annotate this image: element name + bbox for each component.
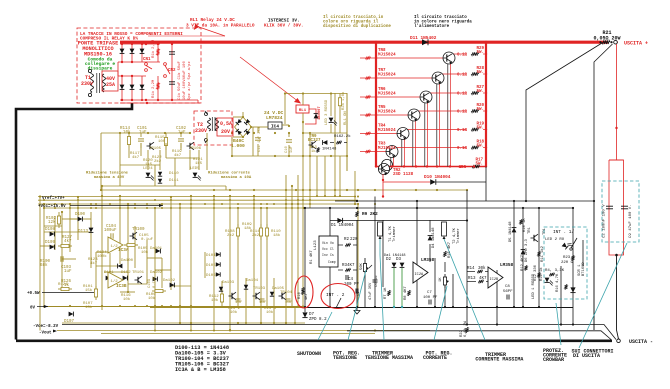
wire olive vertical x298 xyxy=(297,175,299,307)
svg-text:20V: 20V xyxy=(221,129,230,135)
node olive junction xyxy=(297,306,299,308)
svg-text:R13: R13 xyxy=(468,277,476,281)
svg-text:50K: 50K xyxy=(360,262,364,270)
svg-text:Trimmer: Trimmer xyxy=(392,226,397,242)
node olive junction xyxy=(245,322,247,324)
svg-text:IC3A: IC3A xyxy=(118,248,129,253)
node olive junction xyxy=(69,203,71,205)
svg-text:1uF: 1uF xyxy=(139,131,147,135)
svg-text:47uF 35V: 47uF 35V xyxy=(369,282,373,300)
node olive junction xyxy=(190,322,192,324)
wire olive vertical x96 xyxy=(95,252,97,292)
svg-text:10k: 10k xyxy=(230,310,238,315)
node olive junction xyxy=(61,203,63,205)
svg-text:RL1: RL1 xyxy=(299,109,307,113)
wire olive upper cluster stubs xyxy=(140,143,142,156)
wire olive bridge connections xyxy=(233,116,243,118)
wire cyan callout shutdown xyxy=(318,312,332,340)
node olive junction xyxy=(119,132,121,134)
wire olive vertical x214 xyxy=(213,196,215,307)
node olive junction xyxy=(285,322,287,324)
svg-text:5W.: 5W. xyxy=(475,163,483,167)
wire green zener D3 xyxy=(401,268,403,307)
svg-text:TENSIONE MASSIMA: TENSIONE MASSIMA xyxy=(365,355,413,361)
node olive junction xyxy=(288,155,290,157)
wire black vertical x383 xyxy=(382,220,384,287)
svg-text:5W.: 5W. xyxy=(476,145,484,149)
wire cyan callout pot tensione xyxy=(348,270,366,340)
wire green zener D2 xyxy=(393,268,395,307)
wire olive vertical x135 xyxy=(134,226,136,268)
node black junction xyxy=(593,200,595,202)
node black junction xyxy=(466,323,468,325)
box red 40V 25A xyxy=(102,71,118,91)
node red bus D11 junctions xyxy=(418,41,421,44)
node olive junction xyxy=(170,196,172,198)
diode D110 xyxy=(158,172,162,176)
node olive junction xyxy=(297,207,299,209)
node black junction xyxy=(444,306,446,308)
node black junction xyxy=(356,306,358,308)
node olive junction xyxy=(127,203,129,205)
wire olive vertical x335 xyxy=(334,93,336,196)
ground symbol C5 xyxy=(354,308,360,314)
node olive junction xyxy=(302,199,304,201)
node olive junction xyxy=(54,207,56,209)
wire olive bus 0V y306 xyxy=(44,306,303,308)
wire olive bus y200 xyxy=(38,199,358,201)
svg-text:MJ15024: MJ15024 xyxy=(378,54,396,58)
node olive junction xyxy=(309,203,311,205)
node olive junction xyxy=(260,207,262,209)
potentiometer 1K current xyxy=(443,274,446,288)
node olive junction xyxy=(302,121,304,123)
wire olive bus y196 xyxy=(38,196,356,198)
wire black y330 to output xyxy=(347,331,611,340)
node olive junction xyxy=(260,322,262,324)
svg-text:D2: D2 xyxy=(386,258,392,262)
node olive junction xyxy=(231,132,233,134)
svg-text:MJ15024: MJ15024 xyxy=(378,129,396,133)
svg-text:4k7: 4k7 xyxy=(90,261,98,266)
svg-text:4k7: 4k7 xyxy=(132,155,140,160)
svg-text:10k: 10k xyxy=(148,296,156,301)
svg-text:Trimmer: Trimmer xyxy=(456,228,461,244)
node olive junction xyxy=(250,126,252,128)
node olive junction xyxy=(260,306,262,308)
wire collector drop TR7 xyxy=(436,84,438,167)
resistor R10 1K xyxy=(520,219,523,224)
svg-text:12k: 12k xyxy=(48,220,56,225)
svg-text:1.000: 1.000 xyxy=(231,143,245,149)
wire black vertical x330 xyxy=(329,208,331,236)
wire red emitter drop TR7 xyxy=(439,84,441,167)
diode D6 ZPD 3.3 xyxy=(521,250,526,255)
wire olive upper cluster frame xyxy=(101,132,190,134)
resistor R11b 1k xyxy=(538,272,541,277)
resistor R24 1,8k xyxy=(338,94,341,111)
node olive junction xyxy=(288,125,290,127)
led LED3 xyxy=(330,110,332,116)
op-amp IC3B xyxy=(108,272,123,288)
svg-text:D113: D113 xyxy=(78,230,89,234)
wire olive relay box top xyxy=(285,93,347,95)
node olive junction xyxy=(357,195,359,197)
transistor TR102 xyxy=(229,292,237,300)
node olive junction xyxy=(309,199,311,201)
node olive junction xyxy=(302,189,304,191)
wire olive y133 relay xyxy=(303,132,347,134)
svg-text:D100: D100 xyxy=(75,213,86,217)
wire red emitter drop TR8 xyxy=(450,64,452,167)
node output negative terminal xyxy=(617,339,621,343)
transistor TR3 MJ15024 xyxy=(386,146,398,158)
node olive junction xyxy=(374,329,376,331)
wire black sense diagonal 1 xyxy=(526,43,602,201)
wire red emitter drop TR4 xyxy=(404,139,406,167)
wire olive vertical x274 xyxy=(273,278,275,307)
diode bridge bottom 3 xyxy=(141,76,143,100)
wire collector drop TR3 xyxy=(390,157,392,167)
red circle annotation INT 2 xyxy=(321,284,355,309)
svg-text:USCITA +: USCITA + xyxy=(624,41,648,47)
node olive junction xyxy=(291,207,293,209)
wire olive vertical x180 xyxy=(179,204,181,323)
wire cyan callout protez xyxy=(556,303,561,345)
node olive junction xyxy=(324,195,326,197)
node olive junction xyxy=(354,195,356,197)
wire olive link y286 xyxy=(171,285,191,287)
node olive junction xyxy=(213,203,215,205)
node olive junction xyxy=(309,155,311,157)
wire collector drop TR8 xyxy=(447,64,449,167)
svg-text:10k: 10k xyxy=(266,310,274,315)
wire olive link y259 xyxy=(62,258,76,260)
diode D5 1N4148 xyxy=(512,228,517,233)
node black junction xyxy=(538,207,540,209)
wire olive relay verticals xyxy=(284,94,286,125)
wire olive link y246 xyxy=(40,245,55,247)
wire olive vertical x44 xyxy=(43,204,45,307)
wire olive vertical x102 xyxy=(101,186,103,310)
node black junction xyxy=(513,306,515,308)
transformer T2 secondary xyxy=(216,118,219,131)
node olive junction xyxy=(190,207,192,209)
wire black vertical x467 xyxy=(466,190,468,325)
wire red base row TR8 xyxy=(360,57,443,59)
node olive junction xyxy=(134,207,136,209)
svg-text:RL1 Relay 24 V.DC: RL1 Relay 24 V.DC xyxy=(190,18,235,23)
resistor R18 0.1ohm 5W xyxy=(471,146,479,149)
resistor R12 4K7 xyxy=(525,265,528,270)
node olive junction xyxy=(213,306,215,308)
node black junction xyxy=(434,306,436,308)
node olive junction xyxy=(54,203,56,205)
node olive junction xyxy=(285,199,287,201)
node olive junction xyxy=(90,203,92,205)
node olive junction xyxy=(357,189,359,191)
svg-text:0.1uF: 0.1uF xyxy=(153,276,157,288)
node olive junction xyxy=(237,207,239,209)
node olive junction xyxy=(316,195,318,197)
capacitor C1b upper xyxy=(171,44,173,100)
node olive junction xyxy=(190,199,192,201)
svg-text:Riduzione corrente: Riduzione corrente xyxy=(208,171,251,176)
wire collector drop TR4 xyxy=(401,139,403,167)
svg-text:C7: C7 xyxy=(427,291,432,295)
svg-text:D4 1N4148: D4 1N4148 xyxy=(432,227,436,248)
wire olive vertical x230 xyxy=(229,196,231,330)
node black junction xyxy=(356,200,358,202)
node black junction xyxy=(329,306,331,308)
wire olive link y252 xyxy=(96,251,110,253)
wire olive bus y190 xyxy=(101,189,467,191)
svg-text:MJ15024: MJ15024 xyxy=(378,147,396,151)
wire olive upper cluster horizontals xyxy=(120,164,160,166)
svg-text:230V: 230V xyxy=(195,128,207,134)
node olive junction xyxy=(295,189,297,191)
node black junction xyxy=(496,323,498,325)
svg-text:Vcc: Vcc xyxy=(322,247,328,251)
wire red output down xyxy=(616,44,618,160)
wire olive vertical x246 xyxy=(245,278,247,307)
wire black vertical x453 xyxy=(452,274,454,307)
svg-text:0.1uF: 0.1uF xyxy=(141,238,154,242)
wire red bridge bottom rail xyxy=(120,99,198,101)
wire olive link y232 xyxy=(44,231,91,233)
diode D1 1N4004 xyxy=(337,218,342,223)
node red junctions box xyxy=(121,61,123,63)
wire red emitter drop TR5 xyxy=(415,121,417,167)
node olive junction xyxy=(229,195,231,197)
transformer T1 secondary xyxy=(103,74,106,92)
wire black -Vce rail xyxy=(62,325,616,340)
svg-text:Da102: Da102 xyxy=(150,271,163,275)
node olive junction xyxy=(354,203,356,205)
node olive junction xyxy=(273,203,275,205)
svg-text:R9 2K2: R9 2K2 xyxy=(362,212,378,217)
node red bottom bus junctions xyxy=(375,165,377,167)
node olive junction xyxy=(309,132,311,134)
svg-text:Da100: Da100 xyxy=(121,259,134,263)
regulator IC1 L123 xyxy=(319,236,338,267)
node olive junction xyxy=(213,189,215,191)
wire thick red positive bus xyxy=(120,41,608,44)
node olive junction xyxy=(164,132,166,134)
resistor R11 1k2 xyxy=(538,251,541,256)
wire red base row TR4 xyxy=(360,133,397,135)
svg-text:LED5: LED5 xyxy=(190,167,200,171)
svg-text:R34K7: R34K7 xyxy=(342,264,355,268)
svg-text:C6 1u: C6 1u xyxy=(375,276,379,287)
svg-text:D7: D7 xyxy=(309,313,315,317)
svg-text:10Ω: 10Ω xyxy=(458,166,466,170)
svg-text:CORRENTE MASSIMA: CORRENTE MASSIMA xyxy=(475,357,523,363)
transistor TR1 BC547 xyxy=(531,234,539,242)
node red bus junctions xyxy=(375,41,378,44)
wire olive bus y333 xyxy=(101,333,375,335)
node black junction xyxy=(304,306,306,308)
svg-text:TR106: TR106 xyxy=(189,147,202,151)
wire olive vertical x147 xyxy=(146,240,148,284)
svg-text:Da102: Da102 xyxy=(163,279,176,283)
potentiometer 50K xyxy=(363,258,366,277)
resistor R19 0.1ohm 5W xyxy=(471,128,479,131)
svg-text:CORRENTE: CORRENTE xyxy=(423,355,447,361)
node olive junction xyxy=(161,203,163,205)
svg-text:TR100: TR100 xyxy=(132,228,145,232)
svg-text:10k: 10k xyxy=(211,298,219,303)
svg-text:D110: D110 xyxy=(169,172,179,176)
wire red annotation diagonal to relay xyxy=(240,57,299,102)
wire black vertical x305 xyxy=(304,208,306,312)
wire olive vertical x340 xyxy=(339,156,341,196)
node olive junction xyxy=(302,155,304,157)
wire olive link y266 xyxy=(96,265,120,267)
node olive junction xyxy=(43,199,45,201)
svg-text:LED 2 RO: LED 2 RO xyxy=(545,238,565,242)
svg-text:0.1Ω: 0.1Ω xyxy=(457,74,468,78)
node olive junction xyxy=(128,132,130,134)
node olive junction xyxy=(253,199,255,201)
svg-text:4k7: 4k7 xyxy=(174,153,182,158)
svg-text:Riduzione tensione: Riduzione tensione xyxy=(86,171,129,176)
svg-text:massima a 10A: massima a 10A xyxy=(221,175,252,180)
capacitor C4 100 PF xyxy=(346,275,348,280)
svg-text:R11 1k: R11 1k xyxy=(539,267,544,281)
node black junction xyxy=(374,306,376,308)
wire black vertical x445 xyxy=(444,262,446,272)
transistor TR106 xyxy=(187,142,195,150)
svg-text:C11 1uF 25V: C11 1uF 25V xyxy=(258,126,262,152)
svg-text:1k: 1k xyxy=(311,149,316,154)
resistor R21 xyxy=(602,40,610,44)
svg-text:MJ15024: MJ15024 xyxy=(378,93,396,97)
diode D11 1N5402 xyxy=(422,39,428,45)
wire olive vertical x62 xyxy=(61,212,63,288)
svg-text:TR101: TR101 xyxy=(132,271,145,275)
svg-text:Da104: Da104 xyxy=(246,279,259,283)
node olive junction xyxy=(415,189,417,191)
diode bridge top 2 xyxy=(131,44,133,62)
svg-text:TR6: TR6 xyxy=(378,88,386,92)
node olive junction xyxy=(95,203,97,205)
node olive junction xyxy=(180,132,182,134)
svg-text:IC2A: IC2A xyxy=(415,273,424,277)
resistor R1b 2,2M upper xyxy=(157,44,159,62)
resistor base TR8 xyxy=(365,57,370,60)
node olive junction xyxy=(221,203,223,205)
svg-text:220: 220 xyxy=(350,238,358,242)
resistor R28 0.1ohm 5W xyxy=(471,72,479,75)
node olive junction xyxy=(213,199,215,201)
wire black bus y307 xyxy=(305,307,573,309)
resistor R103 10k xyxy=(124,243,138,246)
node black junction xyxy=(329,207,331,209)
node black junction xyxy=(466,219,468,221)
svg-text:R23,: R23, xyxy=(563,256,573,260)
switch INT1 xyxy=(571,238,577,248)
node olive junction xyxy=(69,207,71,209)
svg-text:10k: 10k xyxy=(141,250,149,255)
wire black vertical x514 xyxy=(513,201,515,307)
wire collector drop TR5 xyxy=(412,121,414,167)
node olive junction xyxy=(213,329,215,331)
node olive junction xyxy=(339,195,341,197)
svg-text:l'alimentatore: l'alimentatore xyxy=(414,24,450,29)
node olive junction xyxy=(69,305,71,307)
svg-text:D5 1N4148: D5 1N4148 xyxy=(509,221,513,242)
wire black vertical x357 xyxy=(356,220,358,308)
svg-text:2k2: 2k2 xyxy=(252,233,260,238)
wire thick black negative rail left xyxy=(16,103,132,340)
led LED1 xyxy=(545,278,553,286)
resistor R13b 1k xyxy=(317,147,320,152)
node olive junction xyxy=(95,207,97,209)
wire olive vertical x355 xyxy=(354,171,356,204)
wire black sense diagonal 2 xyxy=(594,44,613,330)
wire black vertical x445 xyxy=(444,286,446,307)
capacitor C2 100nF xyxy=(606,206,613,209)
svg-text:Il circuito tracciato,in: Il circuito tracciato,in xyxy=(323,15,384,20)
svg-text:5W.: 5W. xyxy=(476,51,484,55)
svg-text:INT . 2: INT . 2 xyxy=(326,293,345,298)
node olive junction xyxy=(190,203,192,205)
wire olive vertical x254 xyxy=(253,196,255,307)
wire red emitter row TR5 xyxy=(418,110,466,112)
node olive junction xyxy=(237,322,239,324)
svg-text:220 Ω: 220 Ω xyxy=(561,261,574,265)
node olive junction xyxy=(146,305,148,307)
svg-text:2SD 1128: 2SD 1128 xyxy=(393,173,414,177)
node olive junction xyxy=(253,189,255,191)
svg-text:TR5: TR5 xyxy=(378,106,386,110)
node olive junction xyxy=(291,306,293,308)
node olive junction xyxy=(297,203,299,205)
node olive junction xyxy=(61,211,63,213)
svg-text:LM358: LM358 xyxy=(500,263,514,268)
svg-text:TR7: TR7 xyxy=(378,69,386,73)
wire black vertical x330 xyxy=(329,267,331,307)
wire black output negative drop xyxy=(617,255,619,339)
svg-text:Cs: Cs xyxy=(330,253,334,257)
svg-text:D105: D105 xyxy=(206,264,216,268)
wire olive vertical x155 xyxy=(154,208,156,330)
label annotation underline xyxy=(148,35,225,37)
node black junction xyxy=(538,306,540,308)
resistor R22 6,8k 2W xyxy=(465,327,468,333)
red circle annotation R10 pot xyxy=(295,276,313,308)
svg-text:IC2B: IC2B xyxy=(490,278,499,282)
svg-text:100k: 100k xyxy=(97,254,107,259)
node olive junction xyxy=(266,306,268,308)
wire black vertical x435 xyxy=(434,258,436,307)
wire black vertical x561 xyxy=(560,266,562,325)
node olive junction xyxy=(229,199,231,201)
relay RL1 coil xyxy=(296,105,309,113)
svg-text:D108: D108 xyxy=(45,228,56,232)
trimmer T2 4,7K xyxy=(442,222,447,236)
resistor R9 2K2 xyxy=(355,211,358,217)
svg-text:10uF 100V40uF 100: 10uF 100V40uF 100 xyxy=(183,61,187,100)
wire olive relay bottom xyxy=(302,113,304,124)
svg-text:USCITA -: USCITA - xyxy=(629,339,653,345)
node olive junction xyxy=(189,132,191,134)
wire collector drop TR6 xyxy=(424,103,426,167)
wire red bridge top rail xyxy=(120,43,160,45)
svg-text:SHUTDOWN: SHUTDOWN xyxy=(297,351,321,357)
svg-text:1uF: 1uF xyxy=(285,301,293,305)
